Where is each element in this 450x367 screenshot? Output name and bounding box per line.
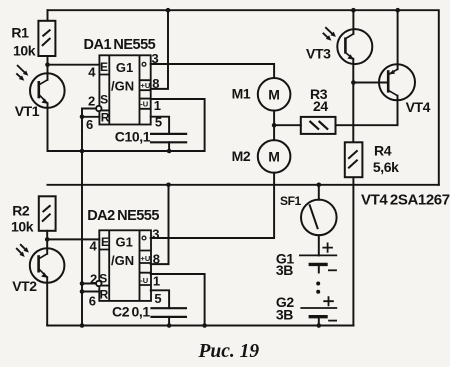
svg-text:6: 6	[89, 294, 96, 309]
svg-text:/GN: /GN	[111, 79, 134, 94]
svg-text:VT4: VT4	[406, 99, 431, 115]
svg-text:SF1: SF1	[280, 194, 302, 208]
svg-text:M1: M1	[232, 86, 251, 102]
svg-text:-U: -U	[140, 100, 148, 109]
svg-text:8: 8	[152, 76, 159, 91]
svg-text:2: 2	[90, 272, 97, 287]
svg-text:8: 8	[153, 252, 160, 267]
svg-text:1: 1	[153, 273, 160, 288]
svg-text:3B: 3B	[276, 306, 293, 322]
svg-text:C2 0,1: C2 0,1	[112, 304, 150, 320]
svg-text:DA1 NE555: DA1 NE555	[84, 37, 156, 53]
svg-text:3: 3	[152, 226, 159, 241]
svg-text:E: E	[100, 60, 108, 74]
svg-text:5: 5	[154, 291, 161, 306]
svg-text:C10,1: C10,1	[115, 129, 151, 145]
svg-text:+U: +U	[141, 81, 151, 90]
svg-text:/GN: /GN	[111, 253, 134, 268]
svg-text:5,6k: 5,6k	[373, 159, 399, 175]
svg-text:2: 2	[88, 93, 95, 108]
svg-text:R2: R2	[12, 203, 30, 219]
svg-text:Рис. 19: Рис. 19	[198, 341, 260, 362]
svg-text:1: 1	[154, 98, 161, 113]
svg-text:M: M	[268, 148, 280, 164]
svg-text:R: R	[100, 287, 109, 301]
svg-text:M2: M2	[232, 148, 251, 164]
svg-text:M: M	[268, 86, 280, 102]
svg-text:+U: +U	[141, 254, 151, 263]
svg-text:VT1: VT1	[15, 103, 40, 119]
svg-text:S: S	[99, 272, 107, 286]
svg-text:3B: 3B	[276, 262, 293, 278]
svg-text:24: 24	[313, 98, 328, 114]
svg-text:DA2 NE555: DA2 NE555	[87, 208, 159, 224]
svg-text:G1: G1	[116, 235, 133, 250]
svg-text:5: 5	[155, 114, 162, 129]
svg-text:VT2: VT2	[12, 278, 37, 294]
svg-text:E: E	[101, 235, 109, 249]
svg-text:-U: -U	[140, 276, 148, 285]
svg-text:G1: G1	[116, 60, 133, 75]
svg-text:4: 4	[90, 239, 98, 254]
svg-text:6: 6	[86, 117, 93, 132]
svg-text:R4: R4	[374, 143, 392, 159]
svg-text:VT3: VT3	[306, 46, 331, 62]
svg-text:VT4 2SA1267: VT4 2SA1267	[361, 191, 450, 208]
svg-text:R: R	[101, 110, 110, 124]
svg-text:S: S	[100, 92, 108, 106]
svg-text:10k: 10k	[13, 43, 36, 59]
svg-text:4: 4	[88, 65, 96, 80]
svg-text:10k: 10k	[11, 218, 34, 234]
svg-text:3: 3	[152, 51, 159, 66]
svg-text:R1: R1	[11, 25, 29, 41]
